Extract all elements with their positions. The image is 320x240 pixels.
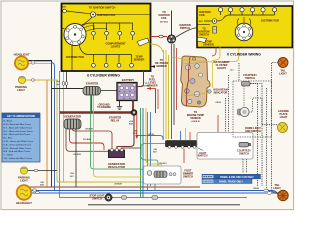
label: STARTER RELAY [109, 115, 122, 122]
svg-text:HEADLIGHT: HEADLIGHT [16, 201, 32, 205]
svg-text:COIL: COIL [199, 13, 206, 17]
courtesy switch (lower) [239, 142, 251, 147]
wire: terminal to coil [66, 11, 90, 14]
connector on parking light wire [31, 79, 35, 81]
label: #16 B tag right [215, 102, 221, 104]
svg-text:SENDER: SENDER [156, 65, 167, 68]
starter [83, 87, 101, 96]
wire: dashed courtesy upper to license [261, 86, 263, 125]
connector on headlight lower wire 2 [36, 191, 40, 193]
svg-text:B-R - Black with Red Tracer: B-R - Black with Red Tracer [3, 133, 30, 136]
svg-text:GENERATOR: GENERATOR [64, 115, 81, 119]
wire: blue bottom run 2 [30, 192, 278, 194]
label: TEMP SENDER (6-cyl) [203, 41, 214, 47]
wire: battery to relay cable [132, 101, 134, 113]
wire: red feed from 8-cyl box [151, 36, 168, 38]
svg-text:6 CYLINDER WIRING: 6 CYLINDER WIRING [227, 53, 261, 57]
wire: black bottom run [88, 204, 240, 206]
wire: yellow into dimmer box [146, 108, 162, 171]
svg-text:Y - Yellow: Y - Yellow [3, 155, 13, 157]
svg-text:LIGHT: LIGHT [20, 179, 28, 183]
label: N-C [199, 21, 203, 23]
wire: regulator third lead [122, 148, 141, 150]
svg-text:B-Y: B-Y [70, 176, 74, 178]
label: LIGHT SWITCH [198, 152, 208, 158]
label: #14 B-Y tag [153, 148, 157, 154]
label: GENERATOR REGULATOR [108, 162, 125, 169]
wire: coil to box edge [96, 14, 150, 16]
wire: blue mid vertical 2 [150, 112, 152, 186]
wire: regulator to relay [117, 116, 134, 151]
wire: box edge to temp arrow [197, 24, 210, 26]
svg-text:SWITCH: SWITCH [199, 34, 209, 37]
svg-text:SENDER: SENDER [134, 58, 145, 62]
wire: dashed courtesy upper feed [250, 84, 262, 87]
wire: ammeter feed with arrow [135, 114, 138, 140]
primary terminal (8-cyl) [62, 7, 66, 13]
svg-text:#10 B-R: #10 B-R [85, 128, 93, 130]
wire: teal trunk from 8-cyl box [59, 71, 61, 198]
ignition switch [167, 35, 175, 43]
wire: blue feed into light switch [138, 135, 163, 140]
wire: red cluster-left vertical [176, 48, 178, 110]
wire: black drop from 8-cyl box [66, 71, 68, 89]
wire: generator field horizontal [72, 128, 112, 149]
wire: light switch red stub [189, 132, 191, 140]
dimmer switch box [144, 166, 182, 184]
svg-text:LIGHTS: LIGHTS [111, 45, 121, 49]
ignition resistor (6-cyl) [213, 27, 217, 34]
label: HEADLIGHT (lower) [16, 201, 32, 205]
headlight conduit [28, 61, 51, 64]
svg-text:8 CYLINDER WIRING: 8 CYLINDER WIRING [87, 73, 120, 77]
connector on yellow drop [62, 82, 64, 86]
svg-text:LIGHTS: LIGHTS [217, 67, 226, 70]
wire: yellow trunk 3 [168, 55, 170, 139]
label: #16 tag [70, 173, 74, 178]
svg-text:LIGHT: LIGHT [273, 187, 281, 190]
label: TAIL LIGHT (lower) [273, 184, 281, 190]
wire: yellow firewall drop [94, 96, 144, 178]
label: PARKING LIGHT (upper) [15, 85, 27, 92]
svg-text:B-R: B-R [40, 185, 44, 187]
label: PARKING LIGHT (lower) [18, 176, 30, 183]
wire: headlight black feed [29, 61, 52, 188]
ignition coil (8-cyl) [90, 12, 95, 17]
wire: dashed courtesy lower drop 2 [246, 148, 248, 174]
wire: black trunk [173, 44, 175, 125]
svg-text:INDICATOR: INDICATOR [214, 92, 228, 95]
wire: green mid vertical [140, 108, 142, 198]
high beam indicator [208, 90, 212, 94]
wire: distributor fan 1 [84, 26, 95, 31]
parking light (lower) [20, 167, 27, 174]
wire: red from light switch down [183, 149, 185, 164]
connector on green wire 2 [152, 196, 158, 200]
svg-text:SENDER: SENDER [190, 117, 201, 120]
wire: coil to distributor [79, 17, 93, 27]
panel note box [202, 174, 261, 183]
label: GROUND TO ENGINE [97, 103, 111, 109]
light switch [166, 141, 205, 149]
label: TO FUEL LEVEL SENDER [147, 76, 158, 88]
license plate light [278, 123, 288, 133]
label: A-1 tag [230, 69, 234, 72]
label: TEMP SENDER (8-cyl) [134, 55, 145, 62]
wire: dashed dome loop [249, 98, 263, 112]
tail light (upper) [278, 58, 288, 68]
wire: teal mid vertical [147, 112, 149, 190]
label: #18 B-R tag [114, 183, 122, 185]
label: DISTRIBUTOR (6-cyl) [261, 19, 279, 23]
parking light (upper) [18, 76, 25, 83]
wire: dashed courtesy feed [226, 98, 239, 144]
wire: dashed dome feed 2 [261, 98, 263, 186]
label: TO IGNITION SWITCH (6-cyl) [198, 28, 209, 37]
label: #12 B-R tag [73, 154, 81, 156]
bullet connector [159, 35, 163, 38]
label: COURTESY SWITCH (lower) [237, 150, 251, 156]
wire: yellow drop from 8-cyl box [63, 71, 65, 182]
wire: distributor drop to box bottom [71, 46, 73, 71]
svg-text:SWITCH: SWITCH [180, 26, 190, 30]
wire: blue mid vertical [142, 108, 144, 198]
svg-text:PANEL TRUCK ONLY: PANEL TRUCK ONLY [219, 180, 243, 183]
wire: dashed second vertical [228, 75, 230, 132]
wire: yellow through cluster [172, 58, 213, 63]
svg-text:B - Black: B - Black [3, 121, 13, 123]
label: HIGH BEAM INDICATOR [213, 89, 227, 95]
wire: blue bottom run to tail light [30, 191, 278, 195]
distributor (8-cyl) [64, 24, 86, 46]
wire: maroon pair near fuel sender 1 [155, 89, 157, 113]
fuel sender arrow [146, 87, 156, 90]
svg-text:PANEL & DELUXE CAB ONLY: PANEL & DELUXE CAB ONLY [220, 176, 254, 179]
tail light (lower) [278, 190, 288, 200]
label: #18 B-Y tag [0, 0, 1, 1]
svg-text:#10 B-W: #10 B-W [83, 139, 91, 141]
svg-text:BL - Blue: BL - Blue [3, 138, 13, 140]
wire: parking light yellow feed [26, 80, 57, 182]
svg-text:#16 B: #16 B [215, 102, 221, 104]
wire: light switch blue stub [180, 131, 182, 140]
wire: N-C to coil [204, 20, 212, 22]
svg-text:Y-B - Yellow with Black Tracer: Y-B - Yellow with Black Tracer [3, 157, 32, 160]
svg-text:LIGHT: LIGHT [279, 73, 287, 76]
dimmer switch contact [147, 171, 152, 176]
wire: green from light switch left [141, 144, 166, 156]
wire: battery positive up [137, 71, 144, 87]
temp sender pointer (8-cyl) [137, 38, 149, 46]
wire: dashed courtesy lower drop 1 [242, 148, 244, 174]
svg-text:TO ENGINE: TO ENGINE [97, 106, 111, 109]
label: #22 B tag [148, 134, 154, 136]
label: #16 B-R wire tag [40, 182, 44, 187]
wire: yellow feed from 6-cyl box [212, 47, 221, 61]
svg-text:#12 B-R: #12 B-R [73, 154, 81, 156]
label: #14 B-R tag [129, 120, 133, 126]
battery [117, 83, 137, 101]
label: STOP LIGHT SWITCH [90, 194, 105, 200]
wire: generator field lead [75, 129, 77, 187]
connector on headlight lower wire 1 [33, 189, 37, 191]
wire: dimmer switch drop [154, 184, 156, 191]
wire: 6-cyl plug bus [217, 12, 275, 21]
svg-text:AND SWITCH: AND SWITCH [245, 130, 261, 133]
wire: dashed courtesy-right vertical [251, 84, 258, 187]
svg-text:LIGHT: LIGHT [17, 88, 25, 92]
wire: green firewall drop [91, 96, 144, 173]
label: DOME LIGHT AND SWITCH [245, 127, 261, 133]
svg-text:#18 B-R: #18 B-R [114, 183, 122, 185]
svg-text:B-R: B-R [129, 124, 133, 126]
wire: ignition coil feed up [171, 11, 173, 35]
cab dashed outline [233, 81, 272, 137]
svg-text:KEY TO ABBREVIATIONS: KEY TO ABBREVIATIONS [7, 115, 35, 118]
label: TO IGNITION COIL [158, 11, 169, 23]
temp sender pointer (6-cyl) [198, 37, 207, 43]
dome light [238, 86, 250, 117]
generator [64, 119, 81, 129]
svg-text:BATTERY: BATTERY [122, 78, 135, 82]
label: #16 B-G tag [133, 131, 137, 136]
svg-text:SWITCH: SWITCH [183, 176, 193, 179]
label: COURTESY SWITCH (upper) [243, 74, 257, 80]
svg-text:REGULATOR: REGULATOR [108, 165, 125, 169]
connector on blue wire right [264, 189, 272, 194]
wire: headlight blue feed [51, 63, 55, 191]
starter relay junction [131, 110, 137, 116]
wire: orange trunk [46, 80, 48, 187]
label: GENERATOR [64, 115, 81, 119]
wire: red trunk [171, 44, 173, 139]
spark plugs top row (8-cyl) [92, 31, 135, 35]
spark plugs bottom row (8-cyl) [92, 63, 134, 67]
label: INSTRUMENT CLUSTER LIGHTS [213, 61, 230, 70]
label: COMPARTMENT LIGHTS [105, 42, 126, 49]
svg-text:SWITCH: SWITCH [239, 153, 249, 156]
svg-text:G-R - Green with Red Tracer: G-R - Green with Red Tracer [3, 143, 31, 146]
label: 8 CYLINDER WIRING [87, 73, 120, 77]
label: TO ENGINE TEMP SENDER [187, 111, 205, 123]
distributor (6-cyl) [235, 17, 253, 41]
svg-text:B-W - Black with Blue Tracer: B-W - Black with Blue Tracer [3, 123, 31, 126]
svg-text:#18 B: #18 B [253, 188, 259, 190]
label: HEADLIGHT (upper) [14, 53, 30, 57]
wire: spark plug bus bottom row [79, 45, 132, 63]
svg-text:STARTER: STARTER [86, 82, 99, 86]
wire: black arc to 6-cyl box [176, 28, 197, 38]
label: TO IGNITION SWITCH [89, 5, 116, 9]
instrument cluster [181, 56, 210, 107]
svg-text:B-G - Black with Green Tracer: B-G - Black with Green Tracer [3, 130, 32, 133]
wire: battery cable (thick) [60, 111, 134, 113]
svg-text:G-W - Green with White Tracer: G-W - Green with White Tracer [3, 140, 33, 143]
wire: green into dimmer box [141, 155, 159, 171]
wire: light switch label arrow [198, 148, 203, 151]
wire: yellow from 6-cyl box to cluster [224, 47, 239, 63]
generator regulator [109, 149, 125, 158]
wire: maroon pair near fuel sender 2 [157, 89, 159, 109]
svg-text:DISTRIBUTOR: DISTRIBUTOR [66, 55, 84, 59]
headlight (lower) [17, 185, 32, 200]
wire: yellow trunk 2 [165, 50, 167, 139]
wire: red feed from 6-cyl box [212, 47, 216, 57]
wire: spark plug bus top row [82, 23, 133, 40]
svg-text:SENDER: SENDER [203, 44, 214, 47]
label: #12 B-Y tag [159, 163, 167, 165]
wire: starter cable down [91, 95, 93, 113]
wire: light switch yellow stub [185, 128, 187, 140]
label: 6 CYLINDER WIRING [227, 53, 261, 57]
svg-text:B-G: B-G [133, 133, 137, 135]
label: #10 B-W tag [83, 139, 91, 141]
svg-text:R-W - Red with White Tracer: R-W - Red with White Tracer [3, 147, 31, 150]
label: BATTERY [122, 78, 135, 82]
wire: dashed to upper tail light [272, 63, 279, 195]
label: DISTRIBUTOR (8-cyl) [66, 55, 84, 59]
wire: yellow bottom run [57, 181, 156, 183]
wire: starter to battery cable [101, 90, 118, 92]
svg-text:R-B - Red with Black Tracer: R-B - Red with Black Tracer [3, 150, 30, 153]
label: TO OIL PRESS SENDER [150, 59, 168, 68]
wire: red drop to cab box [217, 115, 219, 134]
foot dimmer switch [154, 171, 176, 178]
courtesy switch (upper) [242, 82, 251, 86]
label: #10 B-R tag [85, 128, 93, 130]
svg-text:B-Y - Black with Yellow Tracer: B-Y - Black with Yellow Tracer [3, 126, 32, 129]
battery ground [117, 101, 123, 110]
svg-text:SENDER: SENDER [147, 85, 158, 88]
svg-text:B-R: B-R [62, 7, 66, 9]
svg-text:LIGHT: LIGHT [280, 116, 288, 119]
wire: yellow pointer vertical [212, 62, 214, 88]
label: FOOT DIMMER SWITCH [183, 170, 193, 179]
wire: dashed courtesy top feed [238, 63, 240, 81]
wire: distributor to box edge [62, 28, 65, 30]
label: STARTER [86, 82, 99, 86]
wire: yellow curve from 8-cyl box [151, 44, 164, 53]
wire: starter feed [52, 88, 84, 90]
abbreviation key box [2, 113, 40, 162]
svg-text:SWITCH: SWITCH [92, 197, 102, 200]
connector on black drop [65, 82, 67, 86]
wire: brown bottom run [30, 186, 200, 188]
svg-text:SWITCH: SWITCH [198, 155, 208, 158]
svg-text:COIL: COIL [161, 17, 167, 20]
wire: green bottom run [60, 197, 248, 199]
svg-text:#12 B-Y: #12 B-Y [159, 163, 167, 165]
wire: dashed license plate branch [262, 124, 278, 126]
label: TAIL LIGHT (upper) [279, 70, 287, 76]
svg-text:IGNITION COIL: IGNITION COIL [97, 13, 116, 17]
label: IGNITION COIL (8-cyl) [97, 13, 116, 17]
wire: generator armature lead [70, 129, 105, 150]
wire: parking light lower stub [28, 170, 58, 172]
svg-text:DISTRIBUTOR: DISTRIBUTOR [261, 19, 279, 23]
wire: yellow trunk 1 [163, 50, 165, 139]
wire: generator field to regulator [66, 129, 109, 151]
connector on lower parking wire [34, 169, 38, 171]
headlight (upper) [15, 56, 28, 69]
svg-text:#16 B-G: #16 B-G [160, 21, 169, 23]
8-cylinder wiring box [62, 4, 151, 72]
6-cylinder wiring box [197, 6, 292, 48]
svg-text:RELAY: RELAY [111, 118, 120, 122]
stop light switch [105, 194, 112, 201]
spark plugs (6-cyl) [218, 8, 276, 12]
svg-text:#22 B: #22 B [148, 134, 154, 136]
connector on green wire 1 [122, 196, 127, 200]
cab interior outline box [197, 133, 253, 160]
label: #18 B tag [253, 188, 259, 190]
svg-text:#16 B-R: #16 B-R [191, 121, 200, 123]
svg-text:N-C: N-C [199, 21, 203, 23]
ignition coil (6-cyl) [212, 19, 217, 24]
wire: dashed dome feed [267, 88, 279, 193]
label: IGNITION COIL (6-cyl) [199, 10, 211, 17]
label: IGNITION SWITCH [179, 23, 191, 30]
svg-text:SWITCH: SWITCH [245, 77, 255, 80]
wire: distributor fan 2 [86, 28, 107, 31]
label: A-4 tag [56, 80, 60, 86]
label: LICENSE PLATE LIGHT [278, 110, 289, 119]
svg-text:TO IGNITION SWITCH: TO IGNITION SWITCH [89, 5, 116, 9]
label: TO STARTER RELAY tag [142, 83, 150, 88]
